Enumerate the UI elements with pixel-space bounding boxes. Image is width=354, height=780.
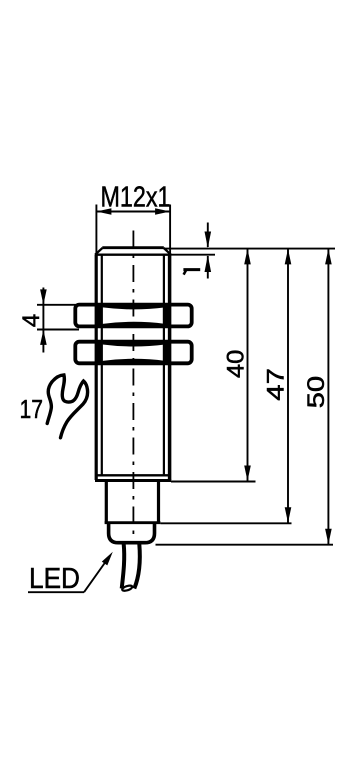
dimension 1 bbox=[205, 223, 212, 279]
svg-text:4: 4 bbox=[18, 314, 45, 327]
svg-text:50: 50 bbox=[303, 376, 330, 409]
40 reference line bbox=[171, 481, 256, 483]
dimension M12x1 line bbox=[96, 205, 170, 255]
47 reference line bbox=[161, 522, 292, 524]
svg-text:17: 17 bbox=[20, 394, 44, 424]
chamfer base reference line bbox=[171, 254, 215, 256]
cable bbox=[122, 544, 140, 592]
hex nut N2 bbox=[75, 342, 191, 364]
wrench symbol bbox=[47, 375, 87, 438]
dimension 4 bbox=[37, 288, 79, 353]
barrel thread body bbox=[95, 255, 171, 481]
svg-text:LED: LED bbox=[29, 563, 80, 595]
dimension 50 bbox=[325, 249, 332, 544]
svg-text:47: 47 bbox=[263, 368, 290, 401]
centerline bbox=[132, 231, 134, 544]
label 1 bbox=[183, 270, 200, 275]
svg-text:40: 40 bbox=[223, 350, 250, 378]
end cap bbox=[109, 524, 155, 543]
LED leader line bbox=[28, 552, 113, 592]
dimension 47 bbox=[285, 249, 292, 523]
top reference line (right extension) bbox=[164, 248, 335, 250]
clamp section bbox=[105, 481, 161, 523]
sensor top face bbox=[95, 248, 171, 255]
hex nut N1 bbox=[75, 305, 191, 327]
dimension 40 bbox=[244, 249, 251, 481]
50 reference line bbox=[156, 544, 334, 546]
